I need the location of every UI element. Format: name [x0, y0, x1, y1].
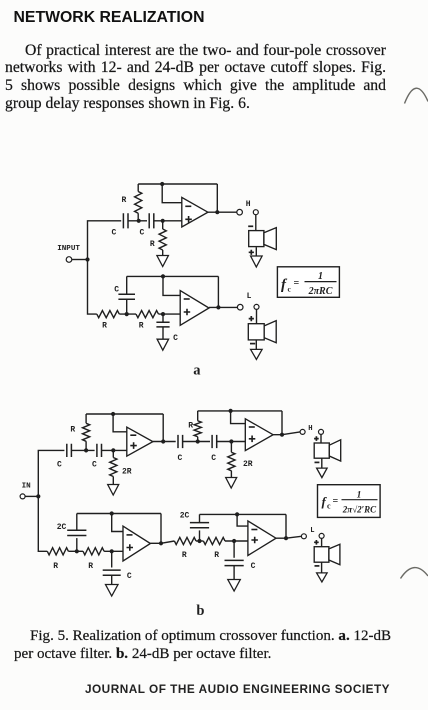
junction input node b	[36, 494, 40, 498]
wire R1 to R2 b-LP1	[68, 550, 83, 552]
label - H speaker a	[248, 225, 253, 227]
wire L speaker a to ground	[255, 340, 257, 350]
label - H speaker b	[315, 461, 320, 463]
svg-text:C: C	[112, 229, 117, 238]
wire U4 output b	[276, 536, 301, 538]
svg-text:C: C	[114, 286, 119, 295]
svg-text:C: C	[178, 454, 183, 463]
wire U1a output	[208, 211, 237, 213]
wire C4 to + input b-HP2	[217, 441, 246, 443]
ground below C b-LP1	[106, 585, 119, 597]
wire C1a to C2a	[128, 220, 147, 222]
capacitor C4 b-HP2	[212, 435, 217, 448]
junction feedback rail b-LP1	[110, 511, 114, 515]
wire node to C2b	[162, 314, 164, 322]
wire input riser up to C1a	[88, 221, 122, 260]
junction U2a output	[216, 305, 220, 309]
formula box fc=1/(2piRC)	[277, 267, 339, 298]
op-amp U1a	[182, 197, 208, 227]
svg-text:=: =	[333, 496, 339, 507]
wire H speaker b to ground	[321, 458, 323, 468]
terminal H speaker a	[253, 210, 258, 215]
capacitor 2C b-LP1	[67, 530, 86, 535]
resistor 2R b-HP2	[228, 442, 235, 478]
svg-text:H: H	[308, 425, 312, 433]
svg-text:2C: 2C	[57, 523, 67, 532]
svg-text:b: b	[196, 603, 204, 619]
terminal L speaker a	[254, 304, 259, 309]
resistor R1 b-LP1	[47, 548, 68, 555]
ground L speaker a	[251, 349, 263, 359]
wire feedback rail b-LP2	[200, 513, 287, 515]
svg-text:R: R	[122, 196, 127, 205]
wire C3 to C4 b-HP2	[183, 441, 210, 443]
wire U2a output	[209, 306, 238, 308]
junction feedback rail b-HP2	[229, 409, 233, 413]
wire node to C1b	[126, 299, 128, 314]
svg-text:C: C	[92, 461, 97, 470]
resistor R2 b-LP1	[83, 548, 104, 555]
op-amp U2 b-HP2	[245, 419, 273, 451]
wire C2a to op-amp + input	[154, 220, 182, 222]
svg-text:C: C	[127, 572, 132, 581]
op-amp U1 b-HP1	[127, 427, 153, 456]
wire L speaker b to ground	[321, 562, 323, 573]
svg-text:1: 1	[318, 271, 323, 282]
input terminal circuit b	[20, 494, 25, 499]
wire R1b to R2b	[119, 313, 136, 315]
svg-text:2R: 2R	[243, 460, 253, 469]
wire U3 out to R1 b-LP2	[161, 541, 174, 543]
capacitor C2 b-HP1	[97, 444, 102, 457]
wire U1 output b	[153, 441, 176, 443]
node + input b-LP2	[232, 539, 236, 543]
svg-text:R: R	[102, 322, 107, 331]
scan artifact arc right middle	[401, 568, 428, 579]
resistor R2a (to ground)	[159, 221, 166, 256]
capacitor C b-LP2 (to ground)	[225, 560, 244, 565]
wire R1 to R2 b-LP2	[196, 540, 203, 542]
node between R1 R2 b-LP2	[197, 539, 201, 543]
wire R2 to + input b-LP2	[225, 540, 248, 542]
junction feedback rail a-HP	[160, 182, 164, 186]
wire C1 to C2 b-HP1	[71, 449, 94, 451]
speaker H circuit b	[314, 440, 341, 461]
wire node to 2C b-LP2	[199, 530, 201, 541]
resistor R2 b-LP2	[203, 537, 225, 544]
svg-text:C: C	[173, 334, 178, 343]
wire to - input b-HP2	[231, 411, 246, 424]
ground below R2a	[157, 256, 169, 267]
wire input b	[25, 495, 38, 497]
capacitor C2b (to ground)	[156, 322, 169, 327]
node between R1 R2 b-LP1	[75, 549, 79, 553]
svg-text:C: C	[57, 461, 62, 470]
terminal L output a	[237, 304, 243, 310]
junction feedback rail a-LP	[161, 274, 165, 278]
svg-text:IN: IN	[22, 482, 32, 490]
wire to - input b-LP2	[237, 514, 248, 526]
wire node to 2C b-LP1	[76, 538, 78, 551]
ground H speaker b	[317, 468, 328, 478]
junction input node a	[85, 257, 89, 261]
capacitor C1b (feedback C)	[118, 294, 135, 299]
svg-text:H: H	[246, 200, 251, 209]
svg-text:2π√2′RC: 2π√2′RC	[342, 505, 377, 515]
wire to H speaker b	[320, 434, 322, 443]
wire C to ground b-LP1	[111, 575, 113, 584]
wire feedback top rail a-HP	[138, 183, 217, 185]
wire to H speaker a	[255, 215, 257, 231]
ground below C b-LP2	[228, 580, 241, 592]
label + L speaker b	[314, 540, 319, 545]
label + H speaker a	[249, 250, 254, 255]
resistor R b-HP1 feedback	[83, 414, 90, 450]
wire C to ground b-LP2	[233, 566, 235, 580]
capacitor C b-LP1 (to ground)	[103, 570, 121, 575]
wire riser up to C1	[38, 450, 64, 496]
wire to - input b-HP1	[113, 414, 127, 432]
svg-text:L: L	[310, 527, 314, 535]
wire feedback drop b-HP2	[281, 411, 283, 435]
capacitor 2C b-LP2	[190, 523, 209, 528]
capacitor C3 b-HP2	[178, 435, 183, 448]
capacitor C1 b-HP1	[67, 444, 72, 457]
junction U3 output b	[159, 541, 163, 545]
ground below C2b	[157, 339, 169, 350]
resistor 2R b-HP1	[110, 450, 117, 484]
wire feedback rail b-HP2	[198, 410, 282, 412]
svg-text:R: R	[88, 562, 93, 571]
terminal H output a	[237, 209, 243, 215]
scan artifact arc top right	[405, 88, 428, 103]
wire U3 output b	[150, 542, 161, 544]
svg-text:R: R	[182, 551, 187, 560]
label + L speaker a	[249, 316, 254, 321]
wire feedback rail b-LP1	[77, 513, 161, 515]
ground below 2R b-HP2	[226, 478, 237, 489]
terminal L output b	[301, 534, 306, 539]
svg-text:C: C	[140, 229, 145, 238]
node + input U2a	[161, 312, 165, 316]
wire 2C to feedback rail b-LP1	[76, 514, 78, 531]
speaker L circuit b	[314, 544, 340, 564]
op-amp U3 b-LP1	[123, 526, 150, 561]
wire input riser down to R1b	[88, 260, 97, 315]
wire to - input b-LP1	[112, 514, 123, 532]
circuit b: 24 dB/octave crossover	[20, 409, 380, 596]
label - L speaker a	[250, 343, 255, 345]
svg-text:c: c	[327, 502, 331, 511]
wire feedback drop b-HP1	[162, 414, 164, 442]
junction feedback rail b-HP1	[111, 412, 115, 416]
wire C2 to + input b-HP1	[102, 449, 127, 451]
wire to L speaker a	[256, 309, 258, 323]
node + input b-HP1	[111, 448, 115, 452]
formula box fc=1/(2pi sqrt2 RC)	[318, 485, 381, 518]
wire node to C b-LP1	[111, 551, 113, 567]
terminal L speaker b	[319, 533, 324, 538]
wire R2b to + input U2a	[159, 313, 181, 315]
resistor R1 b-LP2	[174, 537, 196, 544]
svg-text:R: R	[53, 562, 58, 571]
svg-text:INPUT: INPUT	[57, 245, 80, 253]
label - L speaker b	[315, 565, 320, 567]
wire to - input U1a	[162, 184, 182, 203]
wire to L speaker b	[321, 538, 323, 546]
circuit a: 12 dB/octave crossover	[57, 182, 339, 360]
junction U4 output b	[284, 536, 288, 540]
op-amp U4 b-LP2	[248, 521, 276, 556]
wire feedback rail b-HP1	[86, 413, 163, 415]
capacitor C1a (C)	[123, 213, 128, 228]
svg-text:R: R	[139, 322, 144, 331]
junction feedback rail b-LP2	[235, 512, 239, 516]
input terminal circuit a	[66, 257, 72, 263]
resistor R1b (series R)	[97, 311, 120, 318]
terminal H speaker b	[319, 429, 324, 434]
svg-text:R: R	[214, 551, 219, 560]
wire feedback drop a-HP	[216, 184, 218, 212]
wire to - input U2a	[163, 276, 180, 295]
wire 2C to feedback rail b-LP2	[199, 514, 201, 522]
svg-text:1: 1	[357, 491, 362, 501]
ground H speaker a	[251, 256, 263, 267]
wire U2 output b	[273, 432, 300, 435]
node between C1a and C2a	[137, 219, 141, 223]
capacitor C2a (C)	[149, 213, 154, 228]
node + input U1a	[161, 219, 165, 223]
wire feedback drop b-LP2	[285, 514, 287, 538]
svg-text:2πRC: 2πRC	[308, 286, 333, 297]
svg-text:a: a	[193, 362, 201, 378]
wire riser down to R1 b-LP1	[38, 496, 47, 551]
svg-text:C: C	[211, 454, 216, 463]
resistor R1a (feedback R)	[135, 184, 142, 221]
resistor R2b (series R)	[136, 311, 159, 318]
wire feedback drop a-LP	[217, 276, 219, 307]
op-amp U2a	[180, 291, 209, 326]
wire feedback top rail a-LP	[127, 275, 219, 277]
svg-text:=: =	[294, 278, 300, 289]
svg-text:L: L	[247, 292, 252, 301]
node + input b-LP1	[110, 549, 114, 553]
svg-text:R: R	[150, 240, 155, 249]
svg-text:R: R	[188, 422, 193, 431]
wire input to junction	[72, 259, 88, 261]
wire R2 to + input b-LP1	[104, 550, 123, 552]
terminal H output b	[300, 429, 305, 434]
node between C1 C2 b-HP1	[84, 448, 88, 452]
resistor R b-HP2 feedback	[194, 411, 201, 442]
svg-text:2C: 2C	[180, 511, 190, 520]
wire H speaker a to ground	[255, 247, 257, 256]
node between R1b and R2b	[125, 312, 129, 316]
label + H speaker b	[314, 436, 319, 441]
junction U1 output b	[161, 439, 165, 443]
wire feedback drop b-LP1	[160, 514, 162, 544]
speaker H circuit a	[249, 228, 277, 250]
wire C2b to ground	[162, 327, 164, 339]
wire node to C b-LP2	[233, 541, 235, 558]
svg-text:2R: 2R	[122, 467, 132, 476]
wire C1b to feedback rail	[126, 276, 128, 294]
speaker L circuit a	[248, 321, 276, 343]
node between C3 C4 b-HP2	[196, 439, 200, 443]
ground below 2R b-HP1	[108, 485, 119, 496]
ground L speaker b	[317, 573, 328, 582]
node + input b-HP2	[229, 439, 233, 443]
junction U2 output b	[280, 433, 284, 437]
svg-text:C: C	[251, 562, 256, 571]
svg-text:R: R	[70, 425, 75, 434]
junction U1a output	[215, 210, 219, 214]
